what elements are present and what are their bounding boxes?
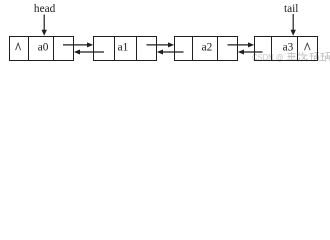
link arrow: node2 prev -> node1 (74, 50, 104, 55)
svg-text:CSDN @: CSDN @ (252, 53, 284, 64)
svg-text:tail: tail (284, 3, 298, 15)
link arrow: node4 prev -> node3 (238, 50, 263, 55)
head pointer arrow (42, 15, 47, 36)
link arrow: node3 prev -> node2 (157, 50, 184, 55)
svg-text:a3: a3 (283, 41, 294, 53)
node 4 null symbol (305, 43, 311, 50)
link arrow: node2 next -> node3 (147, 42, 175, 47)
node 4 box (255, 37, 318, 61)
link arrow: node1 next -> node2 (63, 42, 93, 47)
svg-text:a0: a0 (38, 41, 49, 53)
node 2 box (94, 37, 157, 61)
watermark CSDN (252, 53, 284, 64)
link arrow: node3 next -> node4 (228, 42, 255, 47)
node 1 null symbol (16, 43, 21, 50)
tail pointer arrow (291, 14, 296, 36)
node 1 box (10, 37, 74, 61)
node 3 box (175, 37, 238, 61)
svg-text:a1: a1 (118, 41, 129, 53)
watermark hanzi glyphs (approximated strokes) (287, 52, 330, 62)
svg-text:head: head (34, 3, 56, 15)
svg-text:a2: a2 (202, 41, 213, 53)
